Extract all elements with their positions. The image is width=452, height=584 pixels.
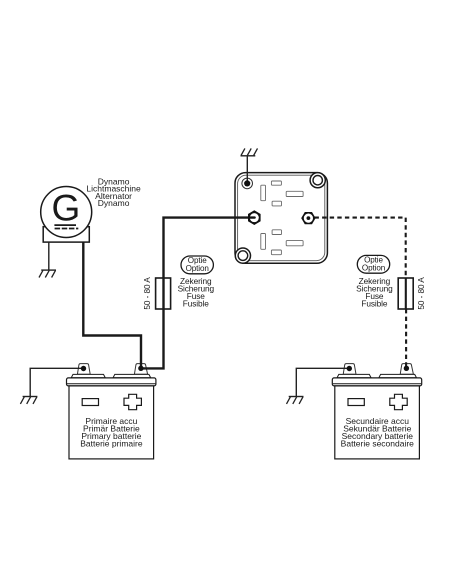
wire relay ground (246, 156, 248, 184)
battery B2 secondary (332, 364, 421, 459)
relay slot top small 2 (272, 201, 281, 206)
option oval left (181, 256, 213, 274)
relay K1 (235, 173, 327, 264)
relay slot bottom vertical (261, 234, 266, 250)
dynamo base (43, 227, 89, 242)
dynamo G1 (41, 187, 92, 243)
ground battery1 (20, 397, 37, 404)
relay body outer (235, 173, 327, 264)
svg-text:Fusible: Fusible (361, 299, 388, 309)
wire relay terminal 30 through fuse F1 to battery1 plus (141, 218, 252, 369)
svg-text:Dynamo: Dynamo (98, 198, 130, 208)
ground battery2 (287, 397, 304, 404)
relay pin 86 dot (244, 180, 250, 186)
battery1 minus symbol (82, 399, 98, 406)
battery2 post minus (343, 364, 356, 375)
fuse F1 labels (178, 276, 215, 309)
battery1 plus symbol (124, 394, 141, 409)
fuse F1 (156, 278, 171, 309)
dynamo circle (41, 187, 92, 238)
relay terminal 87 (301, 212, 315, 224)
relay mounting ring bottom-left (235, 248, 250, 263)
battery2 lid (332, 378, 421, 386)
relay slot top vertical (261, 185, 266, 201)
battery2 labels (341, 416, 415, 448)
battery1 body (69, 386, 154, 459)
battery B1 primary (67, 364, 156, 459)
relay terminal 30 (248, 210, 261, 225)
battery2 cover strip right (379, 374, 417, 377)
relay slot bottom long (286, 241, 303, 246)
svg-text:Option: Option (186, 264, 209, 273)
battery2 minus symbol (348, 399, 364, 406)
fuse F2 (398, 278, 413, 309)
fuse F2 labels (356, 276, 393, 309)
battery2 body (335, 386, 420, 459)
battery1 cover strip left (71, 374, 105, 377)
solid line under G (54, 224, 76, 226)
relay pin 86 top-left ring (242, 178, 253, 189)
relay slot bottom small 2 (271, 250, 281, 255)
wire dynamo output to battery1 plus (83, 242, 141, 368)
battery1 cover strip right (113, 374, 151, 377)
dynamo labels (86, 176, 141, 208)
battery2 plus post dot (404, 366, 409, 371)
battery1 post plus (134, 364, 147, 375)
relay mounting ring top-right (310, 173, 325, 188)
svg-text:G: G (52, 188, 81, 229)
relay body inner (238, 175, 325, 261)
battery1 plus post dot (138, 366, 143, 371)
wire solid inside fuse F2 (405, 278, 407, 309)
svg-text:Option: Option (362, 264, 385, 273)
ground relay (241, 148, 258, 155)
svg-text:50 - 80 A: 50 - 80 A (142, 277, 152, 310)
battery2 minus post dot (347, 366, 352, 371)
relay slot top long (286, 191, 303, 196)
svg-text:50 - 80 A: 50 - 80 A (416, 277, 426, 310)
ground dynamo (39, 270, 56, 277)
svg-text:Batterie secondaire: Batterie secondaire (341, 438, 415, 448)
wire dashed relay terminal 87 to fuse F2 (315, 218, 406, 279)
dashed line under G (55, 228, 79, 230)
option oval right (357, 255, 389, 273)
battery2 post plus (400, 364, 413, 375)
battery1 minus post dot (81, 366, 86, 371)
battery1 labels (80, 416, 143, 448)
wire dynamo to ground (48, 242, 50, 270)
wire dashed fuse F2 to battery2 plus (405, 309, 407, 368)
svg-text:Fusible: Fusible (183, 299, 210, 309)
battery2 plus symbol (390, 394, 407, 409)
battery1 post minus (77, 364, 90, 375)
wire battery2 minus to ground (296, 368, 349, 396)
svg-text:Batterie primaire: Batterie primaire (80, 438, 143, 448)
relay slot bottom small (272, 230, 281, 235)
relay slot top small (271, 181, 281, 185)
battery2 cover strip left (337, 374, 371, 377)
wire battery1 minus to ground (30, 368, 83, 396)
battery1 lid (67, 378, 156, 386)
